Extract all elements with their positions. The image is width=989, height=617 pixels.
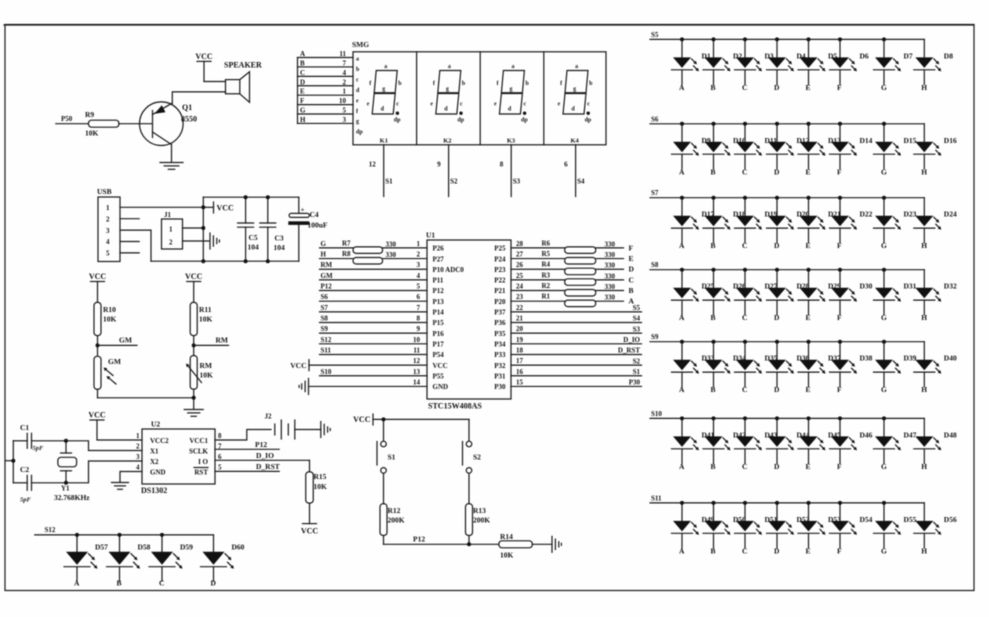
svg-text:RM: RM	[321, 261, 333, 269]
capacitor C5 104	[238, 197, 259, 261]
svg-text:J1: J1	[164, 211, 172, 219]
svg-text:S11: S11	[321, 346, 332, 354]
svg-text:22: 22	[516, 304, 524, 312]
svg-text:5pF: 5pF	[33, 445, 45, 452]
svg-text:X1: X1	[150, 448, 159, 456]
svg-text:D16: D16	[944, 136, 957, 145]
svg-text:3: 3	[106, 227, 110, 235]
svg-text:SPEAKER: SPEAKER	[224, 61, 262, 70]
svg-text:16: 16	[516, 368, 524, 376]
power VCC (buttons)	[353, 414, 373, 425]
svg-text:D7: D7	[904, 51, 913, 60]
svg-text:P23: P23	[494, 266, 506, 274]
svg-text:2: 2	[343, 78, 347, 86]
svg-text:1: 1	[417, 240, 421, 248]
svg-text:C: C	[300, 69, 305, 77]
net S9 rail	[650, 333, 924, 342]
svg-text:U2: U2	[151, 420, 160, 429]
svg-text:P12: P12	[413, 535, 425, 544]
LED D11	[735, 122, 778, 177]
svg-text:B: B	[711, 313, 716, 322]
svg-text:P12: P12	[433, 287, 445, 295]
svg-text:VCC2: VCC2	[150, 437, 169, 445]
svg-text:D32: D32	[944, 282, 957, 291]
svg-text:200K: 200K	[473, 516, 490, 525]
svg-text:D8: D8	[944, 51, 953, 60]
svg-text:D46: D46	[860, 430, 873, 439]
svg-text:D47: D47	[904, 430, 917, 439]
svg-text:c: c	[460, 102, 463, 108]
LED D52	[767, 501, 810, 556]
wire VCC to speaker	[204, 81, 226, 83]
svg-text:330: 330	[605, 240, 616, 248]
LED D50	[703, 501, 746, 556]
net D_IO / pin 19	[511, 336, 642, 344]
svg-text:18: 18	[516, 346, 524, 354]
svg-text:2: 2	[169, 239, 173, 247]
LED D3	[735, 37, 774, 92]
7-seg digit 1	[367, 64, 403, 145]
svg-text:S2: S2	[633, 357, 641, 365]
svg-text:R2: R2	[542, 282, 551, 290]
svg-text:D54: D54	[860, 515, 873, 524]
svg-text:S7: S7	[651, 189, 659, 197]
svg-text:D48: D48	[944, 430, 957, 439]
svg-text:GM: GM	[108, 357, 121, 366]
LED D43	[735, 416, 778, 471]
svg-text:dp: dp	[394, 118, 401, 124]
svg-text:K3: K3	[507, 138, 516, 145]
svg-text:A: A	[679, 313, 685, 322]
svg-text:E: E	[806, 241, 811, 250]
svg-text:8: 8	[500, 161, 504, 169]
svg-text:C: C	[742, 241, 747, 250]
net S8 / pin 8	[320, 314, 428, 322]
svg-text:3: 3	[343, 116, 347, 124]
svg-text:D40: D40	[944, 354, 957, 363]
svg-text:S3: S3	[633, 325, 641, 333]
svg-text:e: e	[494, 102, 497, 108]
svg-text:D: D	[300, 78, 305, 86]
svg-text:P31: P31	[494, 372, 506, 380]
svg-text:D55: D55	[904, 515, 917, 524]
svg-text:S5: S5	[651, 31, 659, 39]
svg-text:A: A	[74, 579, 80, 588]
svg-text:S6: S6	[651, 115, 659, 123]
svg-text:H: H	[921, 462, 927, 471]
svg-text:24: 24	[516, 283, 524, 291]
svg-text:7: 7	[343, 59, 347, 67]
svg-text:S12: S12	[321, 336, 332, 344]
svg-text:a: a	[384, 64, 387, 70]
svg-text:P13: P13	[433, 298, 445, 306]
net VCC / pin 12	[290, 357, 427, 371]
net S8 rail	[650, 261, 924, 270]
wire K3 to S3	[500, 145, 521, 197]
LED D44	[767, 416, 810, 471]
ground (RM)	[184, 409, 203, 411]
svg-text:DS1302: DS1302	[141, 486, 167, 495]
svg-text:6: 6	[417, 293, 421, 301]
LED D28	[767, 268, 810, 323]
svg-text:10K: 10K	[314, 482, 328, 491]
svg-text:VCC: VCC	[217, 204, 235, 213]
svg-text:a: a	[512, 64, 515, 70]
net P30 / pin 15	[511, 378, 642, 386]
svg-text:VCC: VCC	[195, 52, 213, 61]
wire R9 to base	[119, 123, 152, 125]
LED D37	[798, 340, 841, 395]
net S1 / pin 16	[511, 368, 642, 376]
svg-text:X2: X2	[150, 458, 159, 466]
LED D59	[149, 533, 193, 588]
wire R14 to ground	[532, 543, 552, 545]
wire X2	[66, 461, 142, 483]
svg-text:2: 2	[417, 251, 421, 259]
svg-text:D: D	[774, 167, 780, 176]
svg-text:H: H	[921, 167, 927, 176]
svg-text:g: g	[573, 87, 576, 93]
svg-text:G: G	[881, 167, 887, 176]
svg-text:P32: P32	[494, 362, 506, 370]
svg-text:R10: R10	[103, 305, 116, 314]
svg-text:E: E	[300, 88, 305, 96]
svg-text:D: D	[211, 579, 217, 588]
svg-text:25: 25	[516, 272, 524, 280]
svg-text:B: B	[711, 385, 716, 394]
power VCC (R15)	[301, 524, 319, 536]
svg-text:c: c	[524, 102, 527, 108]
svg-text:g: g	[510, 87, 513, 93]
LED D24	[914, 198, 957, 251]
svg-text:VCC1: VCC1	[189, 437, 208, 445]
svg-text:330: 330	[605, 283, 616, 291]
svg-text:G: G	[881, 313, 887, 322]
svg-text:P20: P20	[494, 298, 506, 306]
LED D21	[798, 196, 841, 251]
svg-text:H: H	[921, 313, 927, 322]
svg-text:D_RST: D_RST	[256, 462, 280, 471]
svg-text:D_IO: D_IO	[623, 336, 640, 344]
svg-text:8: 8	[417, 314, 421, 322]
wire battery to ground	[295, 429, 321, 431]
segment pin table A-H	[298, 50, 354, 124]
svg-text:D: D	[774, 313, 780, 322]
svg-text:P10 ADC0: P10 ADC0	[433, 266, 465, 274]
LED D13	[798, 122, 841, 177]
svg-text:F: F	[837, 462, 842, 471]
svg-text:R13: R13	[473, 506, 486, 515]
wire cap common to frame	[6, 441, 15, 483]
svg-text:C: C	[742, 546, 747, 555]
svg-text:VCC: VCC	[88, 411, 106, 420]
svg-text:12: 12	[369, 161, 377, 169]
svg-text:D: D	[774, 241, 780, 250]
svg-text:330: 330	[605, 272, 616, 280]
button S2	[463, 419, 482, 503]
svg-text:C: C	[742, 462, 747, 471]
LED D34	[703, 340, 746, 395]
svg-text:A: A	[679, 167, 685, 176]
svg-text:C4: C4	[310, 210, 319, 219]
resistor R3 330 / pin 25 / net C	[511, 271, 634, 285]
svg-text:S11: S11	[651, 494, 662, 502]
net H / resistor R8 330 / pin 2	[320, 250, 428, 264]
svg-text:A: A	[300, 50, 305, 58]
svg-text:1: 1	[136, 432, 140, 440]
svg-text:F: F	[837, 241, 842, 250]
net P12 / pin 5	[320, 283, 428, 291]
svg-text:R15: R15	[314, 472, 327, 481]
7-seg digit 3	[494, 64, 530, 145]
svg-text:H: H	[300, 116, 306, 124]
svg-text:R9: R9	[85, 110, 94, 119]
resistor R10 10K	[94, 302, 117, 335]
LED D6	[830, 37, 869, 92]
LED D18	[703, 196, 746, 251]
wire R15 to VCC	[309, 503, 311, 523]
svg-text:10: 10	[413, 336, 421, 344]
svg-text:VCC: VCC	[301, 527, 319, 536]
svg-text:dp: dp	[356, 130, 363, 136]
svg-text:STC15W408AS: STC15W408AS	[428, 402, 482, 411]
svg-text:P26: P26	[433, 245, 445, 253]
svg-text:H: H	[921, 385, 927, 394]
LED D51	[735, 501, 778, 556]
top rail	[203, 196, 298, 198]
svg-text:5: 5	[218, 464, 222, 472]
svg-text:D30: D30	[860, 282, 873, 291]
svg-text:D_RST: D_RST	[618, 347, 641, 355]
LED D12	[767, 122, 810, 177]
svg-text:g: g	[382, 87, 385, 93]
net S10 rail	[650, 410, 924, 419]
LED D55	[874, 501, 917, 556]
svg-text:D: D	[774, 462, 780, 471]
resistor R9 10K	[85, 110, 119, 138]
capacitor C4 100uF	[288, 197, 328, 261]
svg-text:R8: R8	[342, 250, 351, 258]
svg-text:P50: P50	[61, 115, 73, 123]
svg-text:4: 4	[136, 464, 140, 472]
svg-text:R3: R3	[542, 271, 551, 279]
svg-text:5: 5	[343, 107, 347, 115]
svg-text:GM: GM	[321, 272, 333, 280]
wire J1 pin1 to bus	[183, 227, 204, 229]
svg-text:VCC: VCC	[433, 362, 448, 370]
crystal Y1 32.768KHz	[54, 441, 90, 502]
svg-text:A: A	[679, 385, 685, 394]
net S9 / pin 9	[320, 325, 428, 333]
svg-text:S12: S12	[45, 526, 56, 534]
svg-text:P17: P17	[433, 341, 445, 349]
svg-text:4: 4	[343, 69, 347, 77]
svg-text:D: D	[774, 385, 780, 394]
svg-text:330: 330	[605, 251, 616, 259]
svg-text:E: E	[806, 83, 811, 92]
wire USB pin1 to VCC bus	[120, 206, 203, 208]
svg-text:C: C	[742, 83, 747, 92]
net S5 rail	[650, 31, 924, 40]
svg-text:F: F	[300, 97, 304, 105]
LED D35	[735, 340, 778, 395]
LED D5	[798, 37, 837, 92]
svg-text:a: a	[575, 64, 578, 70]
ground (Q1 emitter)	[160, 162, 183, 164]
svg-text:C: C	[159, 579, 164, 588]
segment letters a-dp	[356, 57, 363, 136]
svg-text:RST: RST	[194, 469, 208, 477]
resistor R2 330 / pin 24 / net B	[511, 282, 634, 296]
svg-text:9: 9	[417, 325, 421, 333]
U1 pin names	[433, 245, 506, 392]
ground (J2)	[320, 422, 322, 438]
svg-text:Q1: Q1	[182, 103, 192, 112]
svg-text:3: 3	[417, 261, 421, 269]
svg-text:P30: P30	[494, 383, 506, 391]
svg-text:SCLK: SCLK	[189, 448, 209, 456]
svg-text:G: G	[881, 462, 887, 471]
svg-text:B: B	[711, 546, 716, 555]
wire K4 to S4	[564, 145, 585, 197]
svg-text:P54: P54	[433, 351, 445, 359]
svg-text:B: B	[711, 167, 716, 176]
svg-text:g: g	[446, 87, 449, 93]
svg-text:D24: D24	[944, 210, 957, 219]
wire VCC1 to battery	[215, 430, 271, 441]
LED D32	[914, 270, 957, 323]
svg-text:D56: D56	[944, 515, 957, 524]
svg-text:10K: 10K	[500, 551, 514, 560]
svg-text:S1: S1	[633, 368, 641, 376]
svg-text:11: 11	[339, 50, 346, 58]
LED D7	[874, 37, 913, 92]
ground (U2)	[112, 482, 129, 484]
LED D40	[914, 342, 957, 395]
svg-text:1: 1	[106, 204, 110, 212]
wire button rail	[373, 418, 469, 420]
LED D17	[672, 196, 715, 251]
LED D47	[874, 416, 917, 471]
svg-text:B: B	[629, 286, 634, 295]
net GM / pin 4	[320, 272, 428, 280]
svg-text:G: G	[300, 107, 306, 115]
svg-text:S10: S10	[651, 410, 662, 418]
wire USB pin2 stub	[120, 218, 139, 220]
svg-text:C: C	[742, 385, 747, 394]
wire USB pin4 stub	[120, 241, 139, 243]
LED D26	[703, 268, 746, 323]
svg-text:F: F	[837, 546, 842, 555]
svg-text:14: 14	[413, 378, 421, 386]
svg-text:C: C	[742, 167, 747, 176]
LED D15	[874, 122, 917, 177]
svg-text:E: E	[629, 254, 634, 263]
svg-text:Y1: Y1	[61, 485, 70, 493]
svg-text:S9: S9	[321, 325, 329, 333]
svg-text:e: e	[558, 102, 561, 108]
button S1	[377, 419, 396, 503]
svg-text:13: 13	[413, 368, 421, 376]
wire RM bottom	[193, 389, 195, 409]
resistor R6 330 / pin 28 / net F	[511, 239, 634, 253]
svg-text:H: H	[921, 241, 927, 250]
LED D30	[830, 268, 873, 323]
svg-text:F: F	[837, 167, 842, 176]
svg-text:P35: P35	[494, 330, 506, 338]
connector J1	[162, 211, 183, 249]
net S10 / pin 13	[320, 368, 428, 376]
svg-text:6: 6	[564, 161, 568, 169]
svg-text:R14: R14	[500, 532, 513, 541]
svg-text:K4: K4	[570, 138, 579, 145]
wire bottom GM-RM	[98, 397, 194, 399]
svg-text:D31: D31	[904, 282, 917, 291]
resistor R15 10K	[306, 460, 327, 503]
bottom rail	[151, 260, 299, 262]
net D_RST / pin 18	[511, 346, 642, 354]
svg-text:a: a	[448, 64, 451, 70]
svg-text:2: 2	[136, 443, 140, 451]
LED D60	[201, 535, 245, 588]
svg-text:F: F	[629, 243, 634, 252]
svg-text:S9: S9	[651, 333, 659, 341]
svg-text:12: 12	[413, 357, 421, 365]
svg-text:F: F	[837, 385, 842, 394]
wire K1 to S1	[369, 145, 393, 197]
svg-text:S10: S10	[321, 368, 332, 376]
svg-text:RM: RM	[216, 336, 229, 345]
svg-text:4: 4	[106, 238, 110, 246]
svg-text:GND: GND	[150, 469, 166, 477]
svg-text:21: 21	[516, 314, 524, 322]
LED D36	[767, 340, 810, 395]
svg-text:P12: P12	[321, 283, 333, 291]
svg-text:K1: K1	[380, 138, 388, 145]
7-seg digit 4	[558, 64, 594, 145]
svg-text:R12: R12	[388, 506, 401, 515]
capacitor C1 5pF	[13, 423, 66, 452]
svg-text:GND: GND	[433, 383, 449, 391]
svg-text:23: 23	[516, 293, 524, 301]
svg-text:D39: D39	[904, 354, 917, 363]
net S3 / pin 20	[511, 325, 642, 333]
net S12 / pin 10	[320, 336, 428, 344]
resistor R12 200K	[380, 504, 405, 536]
svg-text:5pF: 5pF	[20, 497, 32, 504]
svg-text:C2: C2	[20, 465, 29, 474]
svg-text:D14: D14	[860, 136, 873, 145]
svg-text:330: 330	[386, 240, 397, 248]
LED D54	[830, 501, 873, 556]
svg-text:D60: D60	[232, 543, 245, 552]
svg-text:330: 330	[605, 294, 616, 302]
wire collector to speaker	[172, 92, 225, 104]
photoresistor GM	[94, 356, 121, 389]
svg-text:c: c	[356, 77, 359, 83]
svg-text:R7: R7	[342, 239, 351, 247]
svg-text:32.768KHz: 32.768KHz	[54, 493, 90, 502]
svg-text:G: G	[881, 83, 887, 92]
resistor R1 330 / pin 23 / net A	[511, 293, 635, 307]
svg-text:F: F	[837, 313, 842, 322]
resistor R11 10K	[190, 302, 212, 335]
svg-text:E: E	[806, 313, 811, 322]
LED D48	[914, 418, 957, 471]
svg-text:R1: R1	[542, 293, 551, 301]
LED D46	[830, 416, 873, 471]
svg-text:10K: 10K	[85, 129, 99, 138]
